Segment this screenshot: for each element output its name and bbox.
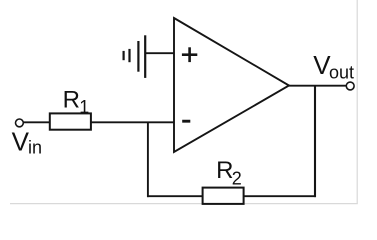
frame border bottom xyxy=(10,203,358,205)
svg-text:2: 2 xyxy=(232,169,242,189)
resistor R1 xyxy=(50,113,91,129)
terminal Vout xyxy=(346,82,354,90)
wire R2 to right vertical xyxy=(244,195,316,197)
svg-text:in: in xyxy=(28,138,42,158)
wire ground to non-inverting input xyxy=(145,52,174,54)
wire Vin to R1 xyxy=(23,121,50,123)
svg-text:V: V xyxy=(12,126,30,156)
svg-text:out: out xyxy=(329,62,354,82)
op-amp U1 xyxy=(174,18,289,152)
wire junction down to feedback xyxy=(147,122,149,197)
wire output xyxy=(289,85,346,87)
op-amp plus input marker xyxy=(182,47,197,62)
frame border right xyxy=(356,0,358,204)
svg-text:1: 1 xyxy=(79,97,89,117)
terminal Vin xyxy=(16,119,24,127)
ground xyxy=(124,35,146,78)
wire bottom left to R2 xyxy=(147,195,203,197)
op-amp minus input marker xyxy=(182,120,190,123)
wire R1 to inverting input xyxy=(91,121,174,123)
svg-text:R: R xyxy=(63,87,80,114)
resistor R2 xyxy=(203,188,244,204)
wire feedback right vertical xyxy=(314,86,316,197)
